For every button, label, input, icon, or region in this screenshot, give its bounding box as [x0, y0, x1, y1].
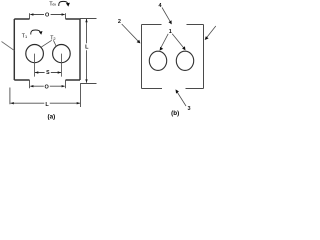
- svg-text:4: 4: [158, 3, 162, 9]
- svg-text:3: 3: [187, 106, 190, 112]
- svg-text:L: L: [85, 45, 89, 51]
- svg-text:S: S: [46, 70, 50, 76]
- svg-text:O: O: [45, 84, 50, 90]
- svg-text:(b): (b): [171, 110, 179, 117]
- svg-text:(a): (a): [48, 114, 56, 121]
- svg-text:T∞: T∞: [49, 2, 56, 8]
- svg-text:L: L: [45, 102, 49, 108]
- svg-text:T1: T1: [22, 33, 27, 39]
- svg-text:1: 1: [169, 29, 172, 35]
- svg-text:O: O: [45, 12, 50, 18]
- svg-text:2: 2: [118, 19, 121, 25]
